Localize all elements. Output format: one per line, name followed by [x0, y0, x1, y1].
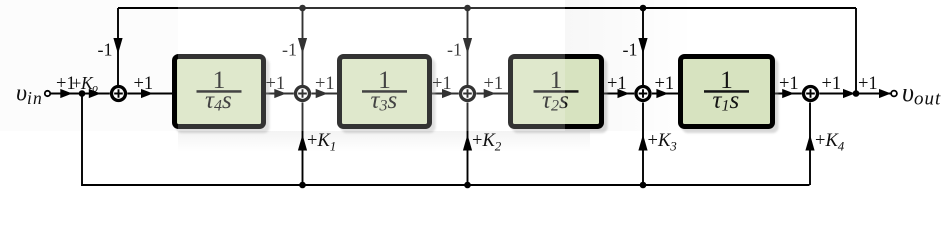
svg-text:+1: +1: [655, 74, 675, 94]
svg-text:+1: +1: [134, 74, 154, 94]
svg-text:+1: +1: [607, 74, 627, 94]
svg-text:-1: -1: [98, 40, 113, 60]
svg-text:+1: +1: [858, 74, 878, 94]
svg-text:+1: +1: [779, 74, 799, 94]
svg-text:-1: -1: [623, 40, 638, 60]
svg-text:+1: +1: [822, 74, 842, 94]
